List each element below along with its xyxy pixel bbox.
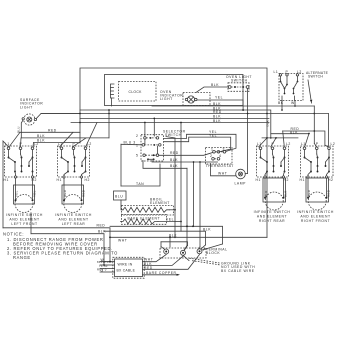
alternate switch S3 (274, 70, 304, 105)
svg-text:NOTICE:: NOTICE: (3, 232, 24, 237)
wire oven light switch drops (242, 100, 244, 111)
oven lamp DS1 (235, 169, 247, 185)
wire bus RED y113.5 (41, 110, 328, 114)
label left front (6, 213, 43, 226)
wire lamp left drop BLU (16, 120, 23, 138)
svg-text:SWITCH: SWITCH (231, 79, 248, 83)
svg-text:BLU 3: BLU 3 (124, 140, 136, 144)
svg-text:RED: RED (97, 223, 106, 227)
wire BLK right feeder2 (262, 137, 298, 139)
svg-text:BLK: BLK (213, 119, 221, 123)
svg-text:H1: H1 (57, 178, 62, 182)
svg-text:RED: RED (307, 189, 311, 197)
part number (97, 260, 112, 272)
wire RED feeder (20, 128, 80, 132)
bake element label (128, 217, 161, 221)
wire WHT bottom (109, 234, 267, 248)
svg-text:L1: L1 (301, 142, 306, 146)
svg-text:BLK: BLK (284, 190, 288, 197)
wire right top feeders (270, 106, 328, 147)
bake element R2 (121, 215, 167, 225)
svg-text:H2: H2 (284, 178, 289, 182)
svg-text:BLOCK: BLOCK (206, 251, 220, 255)
clock C1 (119, 82, 157, 102)
svg-text:CLOCK: CLOCK (129, 90, 143, 94)
wire YEL bake (158, 218, 175, 222)
svg-text:AND ELEMENT: AND ELEMENT (300, 214, 330, 218)
svg-text:AND ELEMENT: AND ELEMENT (9, 218, 39, 222)
infinite switch left rear (57, 142, 92, 182)
svg-text:YEL: YEL (166, 218, 174, 222)
wire alt switch drops (281, 101, 296, 111)
wire bottom short (161, 242, 188, 250)
ground link note (188, 258, 255, 273)
wire BLK bottom mid (104, 227, 211, 245)
svg-text:LEFT FRONT: LEFT FRONT (11, 222, 37, 226)
wire RED right feeder (283, 127, 328, 147)
wire diagonals to right rear switch (259, 131, 285, 147)
svg-text:BLK: BLK (37, 134, 45, 138)
wire YEL lamp to right (197, 96, 243, 100)
svg-text:REV 0: REV 0 (97, 268, 107, 272)
surface indicator light label (20, 98, 43, 109)
svg-text:BLK: BLK (170, 164, 178, 168)
svg-text:BLK: BLK (266, 120, 270, 127)
label right front (297, 210, 334, 223)
svg-text:AND ELEMENT: AND ELEMENT (257, 214, 287, 218)
wire BLK feeder2 (34, 139, 81, 143)
svg-text:RIGHT FRONT: RIGHT FRONT (301, 219, 330, 223)
wire BLU to selector (121, 140, 142, 186)
alternate switch label (306, 71, 329, 103)
wire long right vertical (266, 113, 268, 115)
wire BLK right feeder1 (271, 130, 309, 134)
terminal block TB1 (160, 244, 223, 261)
wire bus y110 (80, 106, 271, 138)
wire BX box left leads (100, 258, 115, 273)
wire RED selector to thermostat (159, 151, 214, 155)
svg-text:INFINITE SWITCH: INFINITE SWITCH (6, 213, 43, 217)
svg-text:H1: H1 (300, 178, 305, 182)
svg-text:P: P (20, 142, 23, 146)
wire YEL selector right1 (164, 130, 237, 151)
wire BLK BX to terminal (143, 256, 184, 266)
wire diagonals to right front switch (305, 133, 310, 147)
wire TAN broil (121, 164, 160, 186)
svg-text:SWITCH: SWITCH (165, 133, 182, 137)
svg-text:WHT: WHT (218, 172, 227, 176)
svg-text:THERMOSTAT: THERMOSTAT (206, 164, 234, 168)
svg-text:L1: L1 (274, 70, 279, 74)
svg-text:BK: BK (278, 101, 284, 105)
element left front (14, 178, 37, 212)
svg-text:P: P (316, 142, 319, 146)
svg-text:RED: RED (48, 128, 57, 132)
svg-text:ELEMENT: ELEMENT (150, 201, 170, 205)
wire bus BLK y106 (152, 102, 314, 106)
svg-text:L2: L2 (34, 142, 39, 146)
thermostat TH1 (206, 148, 234, 169)
wire left verticals (79, 109, 110, 138)
svg-text:W: W (291, 101, 295, 105)
oven indicator lamp (183, 93, 210, 106)
selector switch label (163, 130, 186, 138)
svg-text:INFINITE SWITCH: INFINITE SWITCH (297, 210, 334, 214)
wire diagonals to left rear switch (60, 123, 98, 148)
svg-text:L2: L2 (286, 142, 291, 146)
svg-text:LAMP: LAMP (235, 182, 247, 186)
clock connector (111, 84, 115, 98)
wire WHT thermostat to oven lamp (211, 164, 236, 176)
control panel enclosure (80, 68, 267, 237)
svg-text:RED: RED (82, 189, 86, 197)
broil element R1 (122, 206, 174, 216)
surface indicator lamp (22, 114, 36, 125)
wire BLK selector 2 (143, 161, 187, 169)
svg-text:RANGE: RANGE (13, 255, 31, 260)
svg-text:RED: RED (291, 127, 300, 131)
svg-text:LIGHT: LIGHT (160, 97, 173, 101)
svg-text:RED: RED (170, 151, 179, 155)
wire WHT BX to terminal (143, 255, 167, 262)
svg-text:YEL: YEL (215, 96, 223, 100)
wire bus y118.4 (80, 115, 269, 119)
wire BLK selector (152, 158, 218, 162)
clock enclosure box (105, 75, 244, 106)
wire YEL selector right2 (164, 134, 231, 152)
broil element label (150, 198, 170, 206)
svg-text:L2: L2 (331, 142, 336, 146)
svg-text:RED: RED (63, 189, 67, 197)
svg-text:L2: L2 (87, 142, 92, 146)
svg-text:SWITCH: SWITCH (308, 75, 323, 79)
svg-text:WIRE IN: WIRE IN (118, 263, 133, 267)
svg-text:TAN: TAN (136, 182, 144, 186)
wire BLK feeder (21, 134, 109, 138)
wire BLK bottom left (31, 213, 106, 265)
svg-text:P: P (73, 142, 76, 146)
svg-text:BARE COPPER: BARE COPPER (146, 271, 177, 275)
terminal block label (204, 248, 228, 256)
svg-text:5: 5 (136, 154, 138, 158)
infinite switch left front (4, 142, 39, 182)
svg-text:L1: L1 (5, 142, 10, 146)
label left rear (55, 213, 92, 226)
svg-text:INFINITE SWITCH: INFINITE SWITCH (254, 210, 291, 214)
element right front (306, 178, 331, 210)
svg-text:INFINITE SWITCH: INFINITE SWITCH (55, 213, 92, 217)
svg-text:YEL: YEL (33, 190, 37, 197)
svg-text:BLK: BLK (170, 158, 178, 162)
svg-text:H1: H1 (256, 178, 261, 182)
wire left edge vertical (3, 141, 9, 228)
wire RED BX to terminal (143, 255, 200, 270)
wire BLK to oven light switch (196, 83, 228, 93)
wire RED long bottom (110, 225, 223, 244)
svg-text:H2: H2 (85, 178, 90, 182)
element left rear (62, 178, 86, 212)
wire center verticals (166, 122, 201, 251)
notice text (3, 232, 118, 261)
svg-text:BLU: BLU (115, 195, 123, 199)
svg-text:L1: L1 (257, 142, 262, 146)
svg-text:BX CABLE WIRE: BX CABLE WIRE (221, 269, 255, 273)
wire bus y122.5 (71, 119, 269, 123)
wire RED bottom left (3, 223, 110, 261)
svg-text:LEFT REAR: LEFT REAR (62, 222, 86, 226)
svg-text:LIGHT: LIGHT (20, 105, 33, 109)
selector switch S1 (136, 134, 164, 161)
svg-text:2: 2 (136, 134, 138, 138)
svg-text:RED: RED (213, 110, 222, 114)
svg-text:L1: L1 (58, 142, 63, 146)
wire selector top to bus (144, 118, 155, 137)
svg-text:BLK: BLK (203, 227, 211, 231)
svg-text:RED: RED (327, 189, 331, 197)
oven indicator light label (160, 90, 183, 101)
infinite switch right front (300, 142, 336, 182)
wire diagonals to left front switch (9, 132, 34, 147)
svg-text:RIGHT REAR: RIGHT REAR (259, 219, 285, 223)
label right rear (254, 210, 291, 223)
wire bare copper (143, 271, 181, 276)
svg-text:BLK: BLK (211, 83, 219, 87)
svg-text:P: P (272, 142, 275, 146)
svg-text:AND ELEMENT: AND ELEMENT (58, 218, 88, 222)
svg-text:BLK: BLK (264, 190, 268, 197)
wire lamp right to bus (37, 114, 81, 119)
svg-text:H1: H1 (4, 178, 9, 182)
element right rear (263, 178, 288, 210)
wire lamp to right vertical (245, 88, 248, 173)
infinite switch right rear (256, 142, 291, 182)
oven light switch S2 (226, 75, 252, 91)
svg-text:WHT: WHT (118, 238, 127, 242)
svg-text:1: 1 (136, 143, 138, 147)
BLU terminal box (114, 191, 127, 210)
wire in BX cable box (113, 257, 144, 278)
svg-text:YEL: YEL (15, 190, 19, 197)
wire clock to bus (111, 98, 113, 106)
svg-text:BX CABLE: BX CABLE (117, 269, 136, 273)
